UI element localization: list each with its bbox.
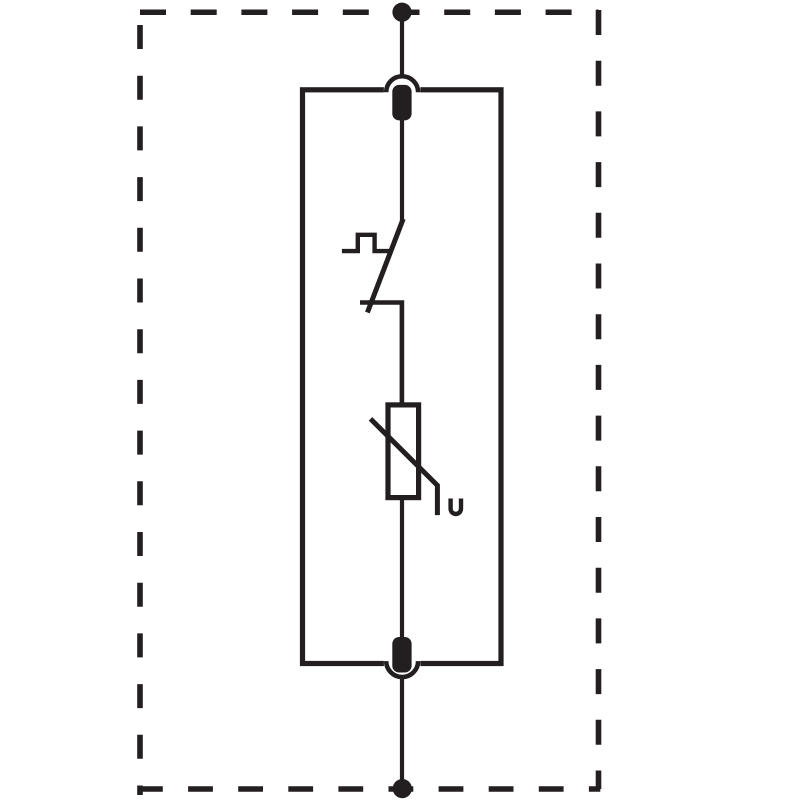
node bottom terminal dot (393, 779, 412, 798)
trigger pulse symbol (342, 235, 389, 251)
plug-in contact top: pill (392, 85, 411, 121)
varistor body (388, 405, 419, 498)
dashed enclosure bottom edge (138, 786, 600, 792)
plug-in contact top: arc (386, 76, 418, 92)
dashed enclosure top edge (140, 9, 599, 15)
switch lower contact and wire down (360, 303, 402, 407)
module box (303, 90, 502, 664)
label U (448, 499, 463, 517)
gap in box edge under bottom plug-in contact (384, 661, 421, 667)
node top terminal dot (392, 3, 411, 22)
plug-in contact bottom: arc (386, 661, 418, 677)
wire varistor to bottom plug-in contact (400, 498, 404, 638)
varistor diagonal stroke (371, 419, 438, 515)
gap in box edge under top plug-in contact (384, 87, 421, 93)
wire pill to switch (400, 118, 404, 220)
dashed enclosure left edge (137, 25, 143, 795)
plug-in contact bottom: pill (392, 637, 411, 673)
wire top terminal to plug-in contact (400, 12, 404, 75)
dashed enclosure right edge (596, 10, 602, 789)
switch blade (triggered spark gap) (367, 219, 403, 313)
wire bottom arc to bottom terminal (400, 678, 404, 789)
